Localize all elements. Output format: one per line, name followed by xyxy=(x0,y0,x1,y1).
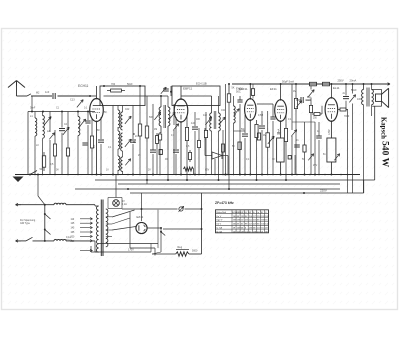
svg-text:C31: C31 xyxy=(221,110,226,112)
svg-text:5000: 5000 xyxy=(192,249,198,252)
svg-text:Reg: Reg xyxy=(178,246,183,249)
svg-text:EF11: EF11 xyxy=(270,87,277,91)
svg-text:1V: 1V xyxy=(106,170,109,172)
svg-text:130V: 130V xyxy=(357,99,363,101)
svg-text:25V: 25V xyxy=(313,165,318,167)
svg-text:2V: 2V xyxy=(148,170,151,172)
svg-text:Uk V: Uk V xyxy=(216,224,221,226)
svg-text:Röhre/Volt: Röhre/Volt xyxy=(216,211,226,214)
svg-text:ZF=473 kHz: ZF=473 kHz xyxy=(215,201,234,205)
svg-text:1M: 1M xyxy=(263,135,266,137)
svg-text:EZ11: EZ11 xyxy=(137,215,144,219)
svg-text:85V: 85V xyxy=(205,170,210,172)
svg-text:30nF: 30nF xyxy=(30,108,36,110)
svg-text:W: W xyxy=(261,212,263,214)
svg-text:1nF: 1nF xyxy=(203,115,208,117)
svg-text:0,1A: 0,1A xyxy=(122,203,127,206)
svg-text:7000: 7000 xyxy=(344,116,350,118)
svg-text:50pF 5mA: 50pF 5mA xyxy=(282,80,294,84)
svg-text:EBF11: EBF11 xyxy=(239,87,248,91)
svg-text:170V: 170V xyxy=(328,129,331,135)
svg-text:1M: 1M xyxy=(293,91,296,93)
svg-text:Ia mA: Ia mA xyxy=(216,226,222,229)
svg-text:GW Type: GW Type xyxy=(20,222,31,225)
svg-text:700: 700 xyxy=(111,83,116,86)
svg-text:Ua V: Ua V xyxy=(216,216,221,218)
svg-text:5K: 5K xyxy=(232,87,235,90)
svg-text:0V: 0V xyxy=(56,170,59,172)
svg-text:C22: C22 xyxy=(125,109,130,111)
svg-text:0,5M: 0,5M xyxy=(258,115,263,117)
svg-text:5000: 5000 xyxy=(306,100,312,102)
svg-text:50K: 50K xyxy=(277,133,282,135)
svg-text:50nF: 50nF xyxy=(127,83,133,86)
svg-text:ECH 11B: ECH 11B xyxy=(196,82,207,86)
svg-text:ECH11: ECH11 xyxy=(78,84,89,88)
svg-text:540 W: 540 W xyxy=(380,141,391,168)
svg-text:Kapsch: Kapsch xyxy=(380,117,387,139)
svg-text:50K: 50K xyxy=(149,117,154,119)
svg-text:50nF: 50nF xyxy=(351,89,357,92)
svg-text:1nF: 1nF xyxy=(191,122,196,125)
svg-text:1M: 1M xyxy=(154,129,157,131)
svg-text:Ik mA: Ik mA xyxy=(216,230,222,233)
svg-text:250V: 250V xyxy=(338,78,344,82)
svg-text:30K: 30K xyxy=(196,119,201,121)
svg-text:C13: C13 xyxy=(70,99,75,102)
svg-text:20mA: 20mA xyxy=(350,78,357,82)
svg-text:Ug2 V: Ug2 V xyxy=(216,220,223,222)
svg-text:EL11: EL11 xyxy=(333,86,340,90)
svg-text:220V: 220V xyxy=(320,189,327,193)
svg-text:1nF: 1nF xyxy=(45,91,50,94)
svg-text:170V: 170V xyxy=(128,248,134,251)
svg-text:EBF11: EBF11 xyxy=(183,86,193,90)
